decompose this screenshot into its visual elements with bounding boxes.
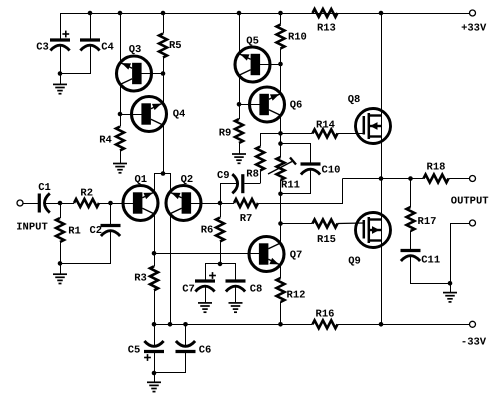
wire R7 left [220,203,234,205]
resistor R6 [216,218,224,242]
svg-text:R12: R12 [287,289,306,301]
node output ground junction [448,281,453,286]
ground C8 [229,303,243,312]
label Q2 [181,174,194,186]
resistor R12 [277,278,285,302]
label Q1 [134,174,147,186]
svg-text:C10: C10 [322,164,341,176]
wire Q7 base [154,253,259,255]
wire R12 bottom [280,302,282,324]
ground C3/C4 [53,74,67,94]
capacitor C9 [232,174,243,193]
wire Q5 emitter [239,75,241,104]
label R13 [317,23,336,35]
label R2 [80,187,93,199]
svg-text:R16: R16 [316,308,335,320]
wire C6 bottom [155,352,186,373]
svg-text:Q7: Q7 [290,249,303,261]
wire Q4 collector [163,74,165,104]
wire R6 bottom [220,242,222,264]
label C11 [421,254,440,266]
svg-text:R14: R14 [316,119,335,131]
label R10 [288,31,307,43]
capacitor C3 [50,31,70,51]
wire R17 to C11 [410,231,412,249]
wire Q3 emitter [120,84,122,115]
wire Q2 emitter [170,214,172,324]
wire R2 to Q1 [99,203,133,205]
terminal INPUT [17,200,23,206]
label Q4 [173,108,186,120]
wire R17 top [410,179,412,208]
svg-text:Q9: Q9 [348,255,361,267]
wire C1 to node [45,203,61,205]
svg-text:R1: R1 [68,225,81,237]
wire R4 bottom [120,151,122,164]
wire Q2 base [191,203,220,205]
wire Q5 base [260,64,281,66]
wire R5 top [163,13,165,34]
wire main vertical rail [381,13,383,324]
ground R1 [53,263,67,283]
wire Q4 emitter [163,125,165,174]
node Q2 base junction [218,201,223,206]
mosfet Q9 [356,213,391,248]
svg-text:Q4: Q4 [173,108,186,120]
wire R11 top [280,133,282,157]
capacitor C1 [39,193,50,212]
capacitor C6 [176,341,196,352]
transistor Q6 [250,87,285,122]
wire R7 to feedback [259,179,343,204]
node output/rail junction [379,176,384,181]
ground R4 [113,164,127,173]
svg-text:R6: R6 [201,224,214,236]
label C3 [36,41,49,53]
wire R10 bottom [280,49,282,65]
node Q4 emitter junction [161,171,166,176]
svg-text:Q5: Q5 [246,36,259,48]
wire R10 top [280,13,282,25]
label Q9 [348,255,361,267]
node bottom rail junctions [152,322,384,327]
wire output return [451,224,470,284]
label R17 [418,216,437,228]
label R3 [134,272,147,284]
label C6 [199,344,212,356]
label Q7 [290,249,303,261]
label R5 [169,40,182,52]
label R6 [201,224,214,236]
wire C3 top [60,13,62,39]
wire Q5 collector [239,13,241,54]
svg-text:Q6: Q6 [290,99,303,111]
wire C4 top [90,13,92,39]
wire Q6 collector [280,64,282,94]
svg-text:Q3: Q3 [129,44,142,56]
wire Q7 emitter [280,264,282,278]
svg-text:R18: R18 [427,161,446,173]
node Q6 emitter junction [278,131,283,136]
capacitor C2 [101,226,121,237]
node Q5 emitter/R9/Q6 base junction [237,102,242,107]
node R2/C2 junction [108,201,113,206]
resistor R8 [256,147,264,171]
svg-text:R5: R5 [169,40,182,52]
node R10/Q5 base junction [278,62,283,67]
resistor R15 [313,220,338,228]
wire R18 to terminal [449,178,470,180]
svg-text:C11: C11 [421,254,440,266]
label R18 [427,161,446,173]
label C2 [89,225,102,237]
ground output [443,283,457,302]
wire C5 top [154,324,156,346]
node R5/Q3 base junction [161,71,166,76]
wire C9 to R8 [244,183,260,185]
svg-text:-33V: -33V [461,336,487,348]
resistor R10 [277,25,285,49]
wire C6 top [185,324,187,346]
node Q3/Q4/R4 junction [118,112,123,117]
wire R11 bottom [280,180,282,194]
label R1 [68,225,81,237]
svg-text:R10: R10 [288,31,307,43]
resistor R16 [313,320,338,328]
svg-text:R15: R15 [317,234,336,246]
node Q7 collector junction [278,221,283,226]
wire output line [343,178,424,180]
wire C11 bottom [411,256,451,284]
resistor R18 [424,175,449,183]
label -33V [461,336,487,348]
wire R9 top [239,104,241,119]
wire C2 bottom [61,231,111,264]
svg-text:Q1: Q1 [134,174,147,186]
wire gate node [260,133,312,135]
wire R1 top [60,203,62,218]
wire C9 left [221,184,238,204]
label C7 [182,283,195,295]
transistor Q3 [117,56,152,91]
label OUTPUT [451,196,489,208]
resistor R5 [159,34,167,58]
label Q8 [348,94,361,106]
svg-text:C1: C1 [38,182,51,194]
wire C5 bottom [154,352,156,374]
wire +33V rail [60,13,470,15]
label Q5 [246,36,259,48]
transistor Q5 [235,47,270,82]
transistor Q4 [132,97,167,132]
ground C7 [198,303,212,312]
label Q3 [129,44,142,56]
terminal OUTPUT hot [470,176,476,182]
wire input [23,203,38,205]
capacitor C11 [401,251,421,262]
wire R6 top [220,203,222,218]
svg-text:C3: C3 [36,41,49,53]
label C1 [38,182,51,194]
wire R8 bottom [260,171,262,184]
resistor R9 [235,119,243,143]
wire -33V rail left [154,324,313,326]
label R4 [99,134,112,146]
wire C10 top [281,144,311,163]
svg-text:C5: C5 [128,344,141,356]
wire Q6 emitter [280,115,282,133]
node C5 ground junction [152,371,157,376]
capacitor C7 [195,272,216,291]
capacitor C5 [144,341,164,361]
node R6/C7/C8 junction [218,262,223,267]
wire R3 bottom [154,290,156,324]
resistor R2 [74,199,99,207]
node R11 top junction [278,141,283,146]
resistor R17 [407,207,415,231]
resistor R14 [313,129,338,137]
label R9 [219,127,232,139]
wire Q1 emitter [154,214,156,254]
node C3/C4 ground junction [58,71,63,76]
label C8 [250,283,263,295]
ground R9 [232,154,246,163]
wire R9 bottom [239,143,241,154]
wire R4 top [120,114,122,127]
resistor R7 [234,199,258,207]
wire R1 bottom [60,242,62,263]
svg-text:Q2: Q2 [181,174,194,186]
resistor R3 [150,266,158,290]
wire C10 bottom [281,170,311,194]
label R8 [246,168,259,180]
svg-text:OUTPUT: OUTPUT [451,196,489,208]
resistor R4 [116,127,124,151]
label C4 [101,41,114,53]
svg-text:R3: R3 [134,272,147,284]
capacitor C8 [226,281,246,292]
capacitor C4 [80,40,100,51]
transistor Q1 [123,186,158,221]
svg-text:C7: C7 [182,283,195,295]
svg-text:C2: C2 [89,225,102,237]
wire R15 left [281,223,313,225]
wire Q4 base [120,114,142,116]
wire to Q7 node [280,194,282,224]
label Q6 [290,99,303,111]
wire -33V rail right [338,324,470,326]
node R1 ground junction [58,261,63,266]
label C5 [128,344,141,356]
terminal -33V [470,321,476,327]
node Q1 emitter junction [152,251,157,256]
terminal OUTPUT return [470,220,476,226]
wire to R2 [60,203,74,205]
wire C2 top [110,203,112,224]
wire collector bracket [155,174,171,193]
wire R3 top [154,253,156,266]
svg-text:C9: C9 [217,170,230,182]
resistor R11 trimmer [268,157,296,180]
node C1/R1 junction [58,201,63,206]
wire Q6 base [239,104,260,106]
transistor Q2 [166,186,201,221]
wire Q3 base [141,73,163,75]
label R7 [240,213,253,225]
wire C3 bottom [60,45,62,73]
wire R5 bottom [163,58,165,74]
label R12 [287,289,306,301]
label R16 [316,308,335,320]
svg-text:C4: C4 [101,41,114,53]
svg-text:R2: R2 [80,187,93,199]
label R11 [281,179,300,191]
label R14 [316,119,335,131]
svg-text:R8: R8 [246,168,259,180]
transistor Q7 [249,237,284,272]
label C10 [322,164,341,176]
label R15 [317,234,336,246]
svg-text:R17: R17 [418,216,437,228]
svg-text:C6: C6 [199,344,212,356]
wire C8 bottom [235,286,237,303]
label INPUT [16,222,48,234]
svg-text:INPUT: INPUT [16,222,48,234]
wire R15 to Q9 gate [338,222,364,225]
node top rail junctions [88,11,384,16]
svg-text:Q8: Q8 [348,94,361,106]
svg-text:R11: R11 [281,179,300,191]
mosfet Q8 [356,109,391,144]
wire R8 top [260,133,262,146]
node R11 bottom junction [278,192,283,197]
wire Q3 collector [120,13,122,64]
terminal +33V [470,10,476,16]
ground C5 [147,373,161,392]
wire Q7 collector [280,224,282,244]
wire C7/C8 bracket [206,264,236,280]
resistor R1 [56,218,64,242]
svg-text:R9: R9 [219,127,232,139]
svg-text:R4: R4 [99,134,112,146]
wire C7 bottom [205,286,207,303]
svg-text:R7: R7 [240,213,253,225]
svg-text:R13: R13 [317,23,336,35]
resistor R13 [313,9,338,17]
label +33V [461,23,487,35]
node output/R17 junction [408,176,413,181]
wire R14 to Q8 gate [338,133,364,135]
capacitor C10 [301,164,321,175]
svg-text:C8: C8 [250,283,263,295]
wire C4 bottom [61,46,91,74]
label C9 [217,170,230,182]
svg-text:+33V: +33V [461,23,487,35]
